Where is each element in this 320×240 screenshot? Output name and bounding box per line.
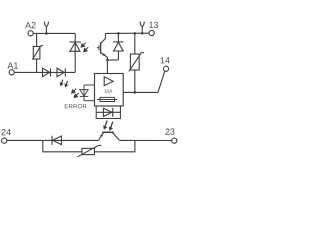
transistor Q1 IGBT — [97, 33, 107, 57]
wire emitter to freewheel diode — [107, 59, 118, 61]
freewheel diode D4 — [113, 33, 123, 60]
junction varistor-2 to output wire — [134, 91, 137, 94]
junction on A2 rail — [45, 32, 48, 35]
wire 13 rail — [105, 32, 149, 34]
wire A1 rail — [14, 71, 75, 73]
terminal 23 — [172, 138, 177, 143]
wire A2 corner vertical — [74, 33, 76, 72]
driver box U1 — [95, 74, 124, 107]
wire through opto box — [96, 111, 120, 113]
wire 24 rail — [7, 139, 99, 141]
wire parallel branch left drop — [43, 140, 82, 151]
switch blade to 14 — [158, 72, 165, 93]
junction on 13 rail at varistor — [134, 32, 137, 35]
plug symbol on 13 rail — [140, 22, 144, 34]
reverse diode D6 — [52, 136, 61, 145]
varistor output bottom — [78, 145, 102, 156]
plug symbol on A2 rail — [44, 22, 48, 34]
terminal 14 — [163, 66, 168, 71]
phototransistor Q2 — [98, 132, 119, 140]
light arrows of LED ERROR — [72, 89, 79, 98]
label 10A — [104, 89, 112, 92]
optocoupler LED D5 — [103, 108, 112, 117]
LED D2 — [57, 68, 65, 77]
fuse 10A — [97, 97, 117, 101]
label 24 — [2, 129, 11, 135]
wire A2 rail — [33, 32, 75, 34]
LED ERROR — [80, 85, 88, 101]
light arrows of LED D2 — [60, 80, 67, 87]
LED D3 vertical — [70, 42, 81, 51]
varistor output top — [129, 53, 144, 72]
wire varistor-2 branch top — [134, 33, 136, 54]
wire ERROR loop top stub — [84, 84, 95, 86]
label 13 — [149, 22, 158, 28]
terminal 13 — [149, 30, 154, 35]
terminal A1 — [9, 70, 14, 75]
terminal 24 — [2, 138, 7, 143]
label 14 — [161, 57, 170, 63]
label 23 — [165, 128, 174, 134]
wire ERROR loop bottom stub — [84, 100, 95, 102]
label ERROR — [65, 104, 87, 108]
label A2 — [25, 22, 36, 28]
light arrows of LED D3 — [81, 43, 88, 52]
wire parallel branch right rise — [94, 140, 134, 151]
label A1 — [7, 62, 18, 68]
wire varistor-2 branch bottom — [134, 70, 136, 92]
junction on 13 rail at plug — [141, 32, 144, 35]
diode D1 — [43, 68, 51, 77]
junction emitter node — [106, 59, 109, 62]
varistor input — [32, 46, 43, 60]
wire Q1 emitter to box — [106, 57, 108, 74]
wire varistor branch bottom — [36, 59, 38, 72]
terminal A2 — [28, 31, 33, 36]
junction on 13 rail at freewheel diode — [117, 32, 120, 35]
wire varistor branch top — [36, 33, 38, 46]
light arrows optocoupler — [104, 120, 113, 130]
optocoupler LED box — [96, 106, 120, 119]
wire U1 output — [123, 91, 158, 93]
amplifier symbol in U1 — [104, 77, 113, 86]
wire 23 rail — [120, 139, 172, 141]
